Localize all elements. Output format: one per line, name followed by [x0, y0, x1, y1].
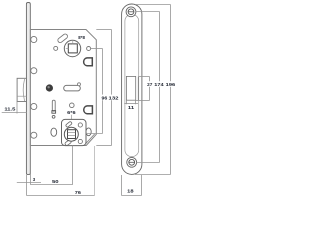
- D-hole lower right: [84, 106, 93, 114]
- labels 96 132: [101, 95, 120, 101]
- dim 76 line: [27, 195, 95, 197]
- vertical oval right of plate: [86, 128, 91, 136]
- small hole right of spindle: [87, 47, 91, 51]
- svg-text:8*8: 8*8: [78, 35, 85, 41]
- dim 96 top ref line: [91, 48, 103, 50]
- svg-text:76: 76: [75, 190, 82, 195]
- spindle square hole 8x8: [68, 44, 77, 53]
- dim 27 ext lines: [138, 76, 149, 78]
- labels 27 174 196: [146, 81, 176, 87]
- faceplate inner outline: [125, 15, 139, 157]
- svg-text:27: 27: [147, 82, 153, 87]
- top screw hole: [126, 7, 136, 17]
- dim 96 bottom ref line: [86, 133, 103, 135]
- dim 132 bottom ext: [96, 145, 111, 147]
- svg-text:11.5: 11.5: [4, 106, 16, 111]
- vertical oval left of plate: [51, 128, 57, 136]
- svg-text:11: 11: [128, 105, 135, 110]
- fixing post 2: [31, 68, 37, 74]
- svg-text:132: 132: [109, 95, 119, 100]
- vertical slot: [52, 100, 55, 111]
- svg-text:196: 196: [166, 82, 176, 87]
- spindle centerline ticks: [72, 41, 74, 45]
- follower mounting plate: [62, 119, 87, 145]
- dim 3 ext lines: [26, 175, 28, 196]
- plate hole top-right: [78, 123, 82, 127]
- svg-text:174: 174: [154, 82, 164, 87]
- dim 174 ext lines: [136, 11, 160, 13]
- cutout double edge: [137, 77, 139, 101]
- dim 11.5 line: [2, 112, 27, 114]
- faceplate edge view (left vertical bar): [26, 3, 30, 175]
- dim 3 line: [17, 182, 41, 184]
- plate slanted slot bottom-left: [64, 139, 71, 146]
- svg-text:18: 18: [127, 189, 134, 194]
- bottom screw hole: [127, 157, 137, 167]
- plate slanted slot top-left: [65, 121, 72, 127]
- dim 11 line: [124, 103, 138, 105]
- WC follower circle: [64, 127, 78, 141]
- dim 196 ext lines: [135, 4, 171, 6]
- dim 18 ext lines: [121, 175, 123, 196]
- D-hole upper right: [84, 58, 93, 66]
- dim 11 ext lines: [126, 100, 128, 104]
- inner chamfer line bottom-right: [85, 134, 95, 145]
- svg-text:96: 96: [102, 95, 108, 100]
- fixing post 3: [31, 103, 37, 109]
- fixing post 1: [31, 36, 37, 42]
- dim 76 ext line: [94, 146, 96, 196]
- WC follower square 6x6: [68, 130, 76, 139]
- plate hole bottom-right: [78, 139, 82, 143]
- dim 196 vertical: [170, 5, 172, 175]
- svg-text:50: 50: [52, 179, 59, 184]
- latch bolt inner line: [17, 95, 26, 97]
- dim 132 top ext: [96, 29, 111, 31]
- fixing post 4: [31, 132, 37, 138]
- spindle follower circle: [64, 40, 80, 56]
- svg-text:6*6: 6*6: [67, 110, 76, 115]
- dim 132 vertical line: [111, 30, 113, 146]
- latch bolt protruding left: [17, 78, 26, 101]
- dim 27 vertical: [149, 77, 151, 101]
- centerline from 6*6 label to follower: [71, 115, 73, 131]
- dim 50 ext line: [72, 146, 74, 185]
- dim 11.5 extension line: [16, 102, 18, 114]
- small hole above follower: [70, 103, 75, 108]
- latch bolt curved face: [23, 79, 24, 101]
- strike faceplate front view: [122, 4, 142, 174]
- dim 96 vertical line: [102, 49, 104, 134]
- dim 18 line: [122, 195, 142, 197]
- vertical slot foot: [52, 111, 56, 114]
- screw head (dark): [46, 84, 53, 91]
- dim 50 line: [31, 184, 73, 186]
- tiny hole above slot right: [78, 83, 81, 86]
- small hole below slot: [52, 115, 55, 118]
- lock case body outline: [30, 30, 96, 146]
- follower band lines: [68, 131, 76, 133]
- faceplate cutout: [126, 76, 135, 100]
- small hole left of spindle: [54, 46, 58, 50]
- dim 174 vertical: [159, 12, 161, 163]
- slanted slot top-left: [57, 33, 69, 43]
- horizontal slot center: [64, 85, 81, 91]
